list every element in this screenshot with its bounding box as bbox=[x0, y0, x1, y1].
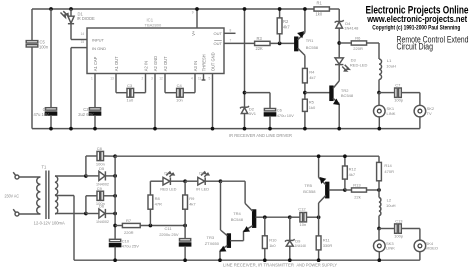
svg-text:7: 7 bbox=[230, 39, 232, 43]
svg-text:IR LED: IR LED bbox=[196, 186, 209, 191]
transistor TR4 BC548 bbox=[231, 203, 265, 240]
svg-text:1k0: 1k0 bbox=[309, 105, 316, 110]
node top-rail D1 bbox=[69, 7, 73, 11]
pin A3 IN bbox=[193, 61, 198, 71]
svg-text:R5: R5 bbox=[309, 99, 315, 104]
svg-text:12-0-12V 100mA: 12-0-12V 100mA bbox=[34, 220, 65, 225]
pin A2 GND bbox=[153, 56, 158, 71]
wire top supply rail bbox=[32, 8, 339, 10]
svg-text:12: 12 bbox=[159, 76, 163, 80]
pin numbers bottom bbox=[91, 76, 211, 80]
svg-text:C13: C13 bbox=[395, 218, 403, 223]
svg-text:14: 14 bbox=[81, 32, 85, 36]
capacitor C10 bbox=[110, 238, 140, 262]
svg-text:Copyright (c) 1991-2000 Paul S: Copyright (c) 1991-2000 Paul Stenning bbox=[372, 24, 460, 31]
svg-text:R4: R4 bbox=[309, 69, 315, 74]
inductor L1 bbox=[377, 58, 396, 94]
caption LINE RECEIVER IR TRANSMITTER AND POWER SUPPLY bbox=[223, 262, 337, 267]
svg-text:R8: R8 bbox=[155, 196, 161, 201]
svg-text:1u0: 1u0 bbox=[127, 97, 134, 102]
svg-text:C10: C10 bbox=[122, 238, 130, 243]
svg-text:R14: R14 bbox=[384, 163, 392, 168]
svg-text:www.electronic-projects.net: www.electronic-projects.net bbox=[366, 14, 467, 25]
svg-text:BC558: BC558 bbox=[303, 189, 316, 194]
pin OUT bbox=[214, 29, 236, 36]
svg-text:D7: D7 bbox=[164, 171, 170, 176]
svg-text:5: 5 bbox=[209, 76, 211, 80]
resistor R8 bbox=[148, 181, 162, 225]
resistor R5 bbox=[303, 99, 317, 130]
svg-text:5V1: 5V1 bbox=[249, 111, 257, 116]
svg-text:2u2 63V: 2u2 63V bbox=[78, 112, 94, 117]
subtitle Remote Control Extend bbox=[397, 35, 469, 45]
svg-text:A3 IN: A3 IN bbox=[193, 61, 198, 71]
resistor R1 bbox=[314, 1, 329, 17]
svg-text:100p: 100p bbox=[394, 98, 404, 103]
svg-text:LINE RECEIVER, IR TRANSMITTER: LINE RECEIVER, IR TRANSMITTER bbox=[223, 262, 295, 267]
led D8 IR LED bbox=[185, 171, 222, 192]
svg-text:TR5: TR5 bbox=[304, 183, 312, 188]
pin A1 OUT bbox=[114, 56, 119, 71]
transistor TR5 BC558 bbox=[303, 154, 347, 217]
svg-text:RED-LED: RED-LED bbox=[350, 62, 368, 67]
svg-text:9: 9 bbox=[192, 11, 194, 15]
svg-text:D6: D6 bbox=[99, 204, 105, 209]
svg-text:4k7: 4k7 bbox=[189, 202, 196, 207]
pin OUT-bar bbox=[214, 39, 232, 46]
op-amp IC1 TBA2800 body bbox=[87, 18, 224, 74]
svg-text:22k: 22k bbox=[354, 195, 360, 200]
led D3 RED-LED bbox=[335, 43, 368, 71]
svg-text:4: 4 bbox=[191, 76, 193, 80]
svg-text:2: 2 bbox=[142, 76, 144, 80]
svg-text:8: 8 bbox=[230, 29, 232, 33]
svg-text:TV: TV bbox=[427, 111, 432, 116]
wire secondary centre tap bbox=[55, 196, 420, 261]
capacitor C6 bbox=[245, 93, 295, 131]
wire secondary top tap bbox=[55, 174, 88, 178]
node TR2 base junction bbox=[303, 83, 307, 99]
svg-text:C3: C3 bbox=[127, 83, 133, 88]
svg-text:10uH: 10uH bbox=[386, 203, 396, 208]
svg-text:11: 11 bbox=[198, 76, 202, 80]
svg-text:R10: R10 bbox=[269, 237, 277, 242]
terminal mains neutral bbox=[13, 209, 40, 216]
svg-text:4k7: 4k7 bbox=[309, 75, 316, 80]
svg-text:L1: L1 bbox=[387, 58, 392, 63]
caption IR RECEIVER AND LINE DRIVER bbox=[229, 133, 293, 138]
svg-text:C12: C12 bbox=[298, 206, 306, 211]
wire OUT-bar to R3 bbox=[224, 42, 255, 44]
svg-text:BC548: BC548 bbox=[341, 93, 354, 98]
svg-text:15: 15 bbox=[81, 40, 85, 44]
wire ground rail top circuit bbox=[32, 128, 420, 130]
capacitor C12 bbox=[290, 206, 321, 227]
capacitor C9 bbox=[86, 186, 117, 214]
title www.electronic-projects.net bbox=[366, 14, 467, 25]
socket SK1 LINK bbox=[374, 93, 396, 131]
svg-text:4k7: 4k7 bbox=[349, 172, 356, 177]
svg-text:230V AC: 230V AC bbox=[5, 193, 20, 198]
svg-text:A2 OUT: A2 OUT bbox=[163, 56, 168, 71]
resistor R13 bbox=[345, 182, 381, 199]
svg-text:INPUT: INPUT bbox=[92, 37, 105, 42]
wire R3 to TR1 base bbox=[270, 42, 295, 46]
zener D2 bbox=[240, 7, 257, 130]
svg-text:2200u 25V: 2200u 25V bbox=[159, 232, 179, 237]
socket SK2 TV bbox=[414, 105, 435, 128]
svg-text:Circuit Diag: Circuit Diag bbox=[397, 41, 434, 51]
svg-text:A1 CAP: A1 CAP bbox=[93, 56, 98, 71]
svg-text:AND POWER SUPPLY: AND POWER SUPPLY bbox=[297, 262, 338, 267]
svg-text:TR4: TR4 bbox=[233, 211, 241, 216]
svg-text:470u 25V: 470u 25V bbox=[122, 244, 139, 249]
svg-text:220R: 220R bbox=[353, 46, 363, 51]
svg-text:R7: R7 bbox=[126, 218, 132, 223]
svg-text:A1 OUT: A1 OUT bbox=[114, 56, 119, 71]
capacitor C13 bbox=[379, 218, 420, 240]
resistor R6 bbox=[339, 35, 379, 59]
svg-text:47R: 47R bbox=[155, 202, 162, 207]
pin IN GND bbox=[81, 40, 106, 51]
svg-text:C7: C7 bbox=[395, 82, 401, 87]
svg-text:R6: R6 bbox=[355, 35, 361, 40]
pin A2 OUT bbox=[163, 56, 168, 71]
capacitor C7 bbox=[379, 82, 420, 105]
pin A1 CAP bbox=[93, 56, 98, 71]
svg-text:1k0: 1k0 bbox=[316, 12, 323, 17]
resistor R7 bbox=[115, 218, 187, 235]
svg-text:THRESH: THRESH bbox=[201, 54, 206, 71]
svg-text:330R: 330R bbox=[323, 243, 333, 248]
svg-text:TBA2800: TBA2800 bbox=[145, 22, 162, 27]
svg-text:IR RECEIVER AND LINE DRIVER: IR RECEIVER AND LINE DRIVER bbox=[229, 133, 293, 138]
svg-text:C4: C4 bbox=[177, 83, 183, 88]
svg-text:D8: D8 bbox=[199, 171, 205, 176]
svg-text:TR3: TR3 bbox=[207, 235, 215, 240]
capacitor C8 bbox=[86, 146, 117, 176]
svg-text:C11: C11 bbox=[165, 226, 173, 231]
svg-text:D5: D5 bbox=[99, 166, 105, 171]
svg-text:22K: 22K bbox=[256, 46, 264, 51]
svg-text:TR1: TR1 bbox=[306, 38, 314, 43]
resistor R12 bbox=[343, 154, 357, 190]
svg-text:10n: 10n bbox=[176, 97, 183, 102]
wire bottom supply rail bbox=[115, 156, 379, 162]
svg-text:1N4002: 1N4002 bbox=[96, 219, 110, 224]
terminal mains live bbox=[13, 172, 40, 179]
svg-text:R3: R3 bbox=[257, 36, 263, 41]
svg-text:C8: C8 bbox=[97, 146, 103, 151]
svg-text:R11: R11 bbox=[323, 237, 331, 242]
svg-text:470R: 470R bbox=[384, 169, 394, 174]
resistor R3 bbox=[255, 36, 270, 51]
wire rectifier bus bbox=[113, 156, 117, 239]
svg-text:OUT: OUT bbox=[214, 31, 223, 36]
pin INPUT bbox=[81, 32, 105, 43]
svg-text:R13: R13 bbox=[353, 182, 361, 187]
wire LED node to collectors bbox=[221, 181, 246, 230]
wire IN GND to ground bbox=[69, 48, 87, 131]
capacitor C5 bbox=[26, 9, 49, 129]
resistor R10 bbox=[262, 217, 277, 262]
node top-rail C1 bbox=[49, 7, 53, 11]
svg-text:3: 3 bbox=[151, 76, 153, 80]
svg-text:ZTX650: ZTX650 bbox=[205, 241, 220, 246]
transformer T1 bbox=[34, 164, 65, 225]
title Electronic Projects Online bbox=[366, 4, 469, 16]
svg-text:1k0: 1k0 bbox=[269, 243, 276, 248]
capacitor C3 bbox=[116, 74, 146, 103]
svg-text:470u 10V: 470u 10V bbox=[277, 113, 294, 118]
svg-text:VIDEO: VIDEO bbox=[426, 246, 438, 251]
pin V+ bbox=[191, 7, 199, 36]
capacitor C1 bbox=[34, 9, 57, 130]
capacitor C11 bbox=[159, 226, 191, 263]
transistor TR1 BC558 bbox=[295, 7, 319, 68]
label 230V AC bbox=[5, 193, 20, 198]
svg-text:47u 10V: 47u 10V bbox=[34, 112, 50, 117]
wire TR4 base node line bbox=[263, 215, 292, 219]
led D7 RED LED bbox=[150, 171, 187, 192]
transistor TR2 BC548 bbox=[330, 65, 354, 131]
wire A2 GND to ground bbox=[153, 74, 157, 131]
svg-text:A2 IN: A2 IN bbox=[143, 61, 148, 71]
svg-text:13: 13 bbox=[110, 76, 114, 80]
wire secondary bottom tap bbox=[55, 212, 88, 216]
resistor R11 bbox=[316, 217, 332, 262]
photodiode D1 bbox=[61, 9, 96, 40]
resistor R2 bbox=[277, 7, 290, 43]
svg-text:A2 GND: A2 GND bbox=[153, 56, 158, 71]
svg-text:LINK: LINK bbox=[387, 111, 396, 116]
svg-text:IN GND: IN GND bbox=[92, 46, 106, 51]
svg-text:R2: R2 bbox=[283, 19, 289, 24]
svg-text:C6: C6 bbox=[277, 107, 283, 112]
svg-text:BC548: BC548 bbox=[231, 217, 244, 222]
svg-text:OUT: OUT bbox=[214, 41, 223, 46]
svg-text:RED LED: RED LED bbox=[160, 186, 176, 191]
title copyright line bbox=[372, 24, 460, 31]
svg-text:10n: 10n bbox=[300, 222, 307, 227]
svg-text:10uH: 10uH bbox=[386, 63, 396, 68]
diode D5 bbox=[86, 166, 117, 186]
subtitle Circuit Diag bbox=[397, 41, 434, 51]
diode D6 bbox=[86, 204, 117, 224]
svg-text:4k7: 4k7 bbox=[283, 25, 290, 30]
svg-text:LINK: LINK bbox=[386, 246, 395, 251]
svg-text:1N4148: 1N4148 bbox=[295, 243, 307, 248]
svg-text:R12: R12 bbox=[349, 166, 357, 171]
svg-text:220R: 220R bbox=[124, 230, 134, 235]
diode D4 bbox=[335, 9, 359, 45]
wire TR2 base bbox=[305, 92, 330, 94]
capacitor C2 bbox=[78, 74, 100, 131]
resistor R4 bbox=[303, 68, 317, 83]
socket SK4 VIDEO bbox=[414, 240, 438, 260]
resistor R9 bbox=[183, 181, 197, 225]
zener D9 bbox=[285, 217, 306, 262]
socket SK3 LINK bbox=[374, 229, 396, 263]
wire OUT GND to ground bbox=[211, 74, 215, 131]
svg-text:100p: 100p bbox=[394, 234, 404, 239]
svg-text:BC558: BC558 bbox=[306, 45, 319, 50]
svg-text:100n: 100n bbox=[39, 44, 49, 49]
pin OUT GND bbox=[210, 52, 215, 71]
pin A2 IN bbox=[143, 61, 148, 71]
svg-text:R9: R9 bbox=[189, 196, 195, 201]
svg-text:IR DIODE: IR DIODE bbox=[77, 16, 95, 21]
svg-text:1: 1 bbox=[91, 76, 93, 80]
resistor R14 bbox=[377, 162, 394, 190]
svg-text:L2: L2 bbox=[387, 198, 392, 203]
inductor L2 bbox=[377, 190, 396, 230]
pin THRESH stub bbox=[202, 74, 206, 81]
svg-text:1N4148: 1N4148 bbox=[344, 25, 359, 30]
transistor TR3 ZTX650 bbox=[205, 230, 244, 262]
svg-text:C9: C9 bbox=[97, 186, 103, 191]
svg-text:R1: R1 bbox=[317, 1, 323, 6]
svg-text:T1: T1 bbox=[42, 164, 48, 169]
pin THRESH bbox=[201, 54, 206, 71]
svg-text:OUT GND: OUT GND bbox=[210, 52, 215, 71]
capacitor C4 bbox=[165, 74, 195, 103]
svg-text:V+: V+ bbox=[191, 30, 196, 36]
